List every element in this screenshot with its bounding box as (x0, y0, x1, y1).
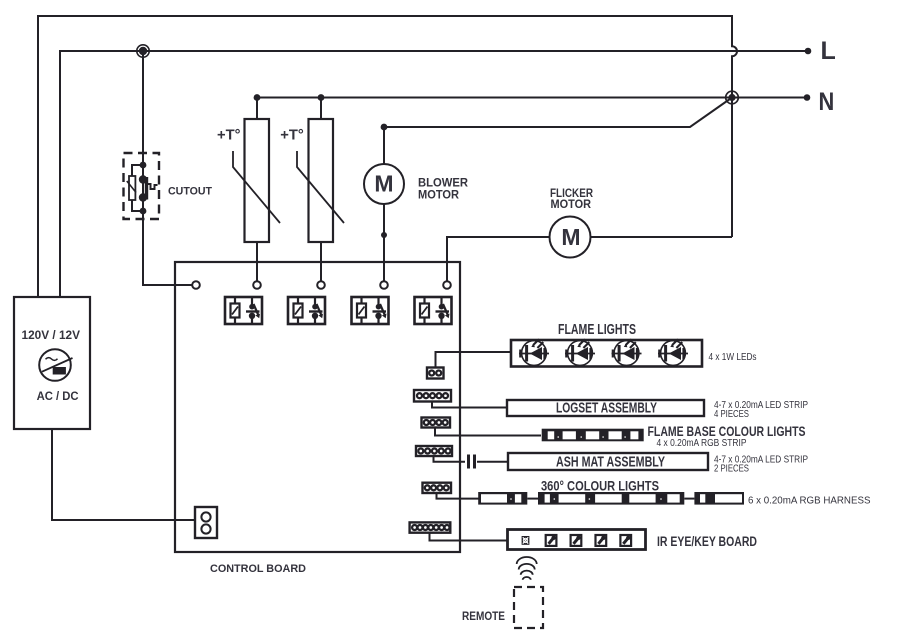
node: junction thermistor 2 top (318, 94, 325, 101)
node: circled junction at N line and right vertical (728, 94, 735, 101)
terminal blower (380, 281, 388, 289)
svg-text:+T°: +T° (217, 127, 241, 144)
svg-text:ASH MAT ASSEMBLY: ASH MAT ASSEMBLY (556, 454, 665, 471)
svg-text:4 PIECES: 4 PIECES (714, 409, 749, 420)
svg-text:N: N (819, 88, 835, 116)
relay/triac block 2 (288, 297, 325, 324)
wire: L line from power supply top, hop over vertical at x=733, to L terminal (60, 51, 807, 297)
ash mat assembly bar (508, 453, 708, 470)
key button 4 (620, 535, 631, 546)
terminal thermistor 1 (253, 281, 261, 289)
node: N terminal dot (804, 94, 811, 101)
node: junction on L line to cutout (139, 47, 147, 55)
svg-text:360° COLOUR LIGHTS: 360° COLOUR LIGHTS (541, 477, 659, 493)
svg-text:FLAME BASE COLOUR LIGHTS: FLAME BASE COLOUR LIGHTS (648, 423, 806, 439)
low-voltage input connector (2-pin vertical) (195, 507, 217, 538)
svg-text:FLAME LIGHTS: FLAME LIGHTS (558, 322, 636, 338)
LED 3 (612, 339, 642, 365)
logset assembly bar (507, 400, 704, 416)
svg-text:M: M (561, 224, 580, 250)
blower motor M (364, 127, 404, 281)
LED 1 (519, 339, 549, 365)
svg-text:120V / 12V: 120V / 12V (22, 328, 81, 342)
svg-text:CUTOUT: CUTOUT (168, 186, 212, 198)
node: L terminal dot (805, 48, 812, 55)
connector J4 (5-pin) for ash mat (416, 446, 465, 462)
thermal cutout (dashed box with thermistor and switch) (124, 153, 160, 219)
relay/triac block 4 (415, 297, 452, 324)
svg-text:MOTOR: MOTOR (551, 199, 592, 211)
svg-text:CONTROL BOARD: CONTROL BOARD (210, 563, 306, 575)
thermistor 1 +T (233, 98, 280, 282)
connector J6 (7-pin) for IR eye/key board (410, 522, 508, 540)
360 colour lights harness (478, 492, 744, 505)
connector J5 (4-pin) for 360 colour lights (423, 483, 480, 499)
flame base colour lights strip (542, 429, 644, 442)
thermistor 2 +T (297, 98, 344, 282)
key button 1 (546, 535, 557, 546)
key button 2 (571, 535, 582, 546)
svg-text:IR EYE/KEY BOARD: IR EYE/KEY BOARD (657, 534, 757, 550)
wire: cutout branch from L junction down through cutout to board terminal (143, 51, 192, 285)
flicker motor M (447, 217, 732, 282)
IR eye/key board bar (508, 530, 646, 550)
wire: outer top line from power supply to right vertical, down to flicker motor (38, 16, 737, 297)
IR receiver square (522, 536, 530, 545)
key button 3 (596, 535, 607, 546)
node: junction blower line start (381, 124, 388, 131)
board input terminals (open circles) (192, 281, 451, 289)
node: junction thermistor 1 top (254, 94, 261, 101)
wire: blower motor top line with diagonal up to N junction (384, 98, 732, 128)
connector J1 (2-pin) for flame lights (427, 352, 511, 379)
svg-text:BLOWER: BLOWER (418, 178, 469, 190)
svg-text:REMOTE: REMOTE (462, 610, 505, 623)
relay/triac block 3 (352, 297, 389, 324)
wire: N line connecting thermistor tops to N terminal (257, 97, 806, 99)
LED 4 (658, 339, 688, 365)
connector J2 (5-pin) for logset (414, 390, 507, 408)
svg-text:L: L (821, 37, 836, 65)
svg-text:4 x 0.20mA RGB STRIP: 4 x 0.20mA RGB STRIP (657, 438, 747, 449)
connector J3 (4-pin) for flame base colour lights (422, 418, 542, 436)
capacitor in ash mat line (469, 455, 509, 469)
flame lights bar with 4 LEDs (511, 340, 702, 367)
terminal from cutout (192, 281, 200, 289)
svg-text:AC / DC: AC / DC (37, 389, 79, 403)
svg-text:+T°: +T° (280, 127, 304, 144)
terminal thermistor 2 (317, 281, 325, 289)
svg-text:MOTOR: MOTOR (418, 190, 460, 202)
svg-text:M: M (374, 171, 393, 197)
svg-text:2 PIECES: 2 PIECES (714, 463, 749, 474)
svg-text:LOGSET ASSEMBLY: LOGSET ASSEMBLY (556, 399, 657, 416)
remote control (dashed box with IR waves) (514, 557, 543, 628)
control board outline (175, 262, 460, 552)
relay/triac block 1 (225, 297, 262, 324)
svg-text:4 x 1W LEDs: 4 x 1W LEDs (709, 352, 757, 363)
LED 2 (565, 339, 595, 365)
svg-text:6 x 0.20mA RGB HARNESS: 6 x 0.20mA RGB HARNESS (748, 495, 871, 506)
wire: power supply output to low-voltage connector (52, 429, 195, 520)
power supply 120V/12V AC/DC (14, 297, 90, 429)
terminal flicker (443, 281, 451, 289)
